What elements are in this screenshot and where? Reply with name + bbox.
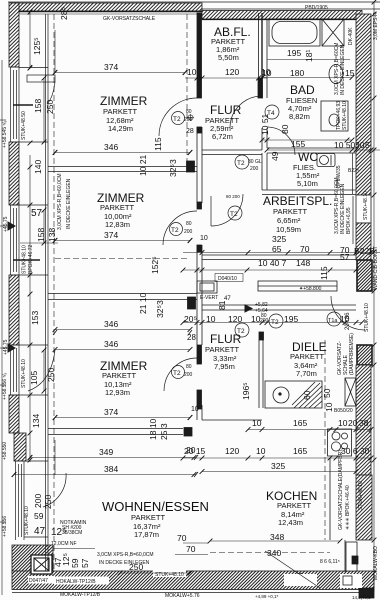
svg-text:6,72m: 6,72m — [212, 132, 233, 141]
svg-text:165: 165 — [293, 418, 307, 428]
svg-text:WC: WC — [298, 150, 318, 164]
svg-text:ZIMMER: ZIMMER — [100, 94, 148, 108]
svg-text:340: 340 — [267, 548, 281, 558]
svg-text:E-VERT: E-VERT — [200, 295, 218, 301]
svg-text:80: 80 — [186, 364, 192, 370]
svg-text:32⁵3: 32⁵3 — [168, 159, 178, 177]
svg-text:WAND-CIB-BOKST: WAND-CIB-BOKST — [373, 246, 379, 290]
svg-text:8,82m: 8,82m — [289, 112, 310, 121]
svg-text:PARKETT: PARKETT — [205, 345, 239, 354]
svg-text:140: 140 — [33, 160, 43, 174]
svg-text:374: 374 — [104, 62, 118, 72]
svg-text:IN DECKE EINLEGEN: IN DECKE EINLEGEN — [99, 560, 150, 566]
svg-text:25 3: 25 3 — [159, 423, 169, 440]
svg-text:10,59m: 10,59m — [276, 225, 301, 234]
svg-text:ARBEITSPL.: ARBEITSPL. — [263, 194, 332, 208]
svg-text:PARKETT: PARKETT — [277, 501, 311, 510]
svg-text:14,29m: 14,29m — [108, 124, 133, 133]
svg-text:346: 346 — [104, 339, 118, 349]
svg-text:+4,89 +0,1⁵: +4,89 +0,1⁵ — [255, 594, 279, 599]
svg-text:8 6 6,11⁵: 8 6 6,11⁵ — [320, 559, 340, 565]
svg-text:325: 325 — [271, 461, 285, 471]
svg-text:200: 200 — [184, 229, 193, 235]
svg-text:BPOK+6,95: BPOK+6,95 — [346, 207, 352, 234]
svg-text:6,65m²: 6,65m² — [277, 216, 301, 225]
svg-text:✦+58.800: ✦+58.800 — [299, 286, 322, 292]
svg-text:250: 250 — [45, 100, 55, 114]
svg-text:153: 153 — [30, 311, 40, 325]
svg-text:10 21: 10 21 — [138, 154, 148, 176]
svg-text:70: 70 — [186, 544, 196, 554]
svg-text:STUK+48.50: STUK+48.50 — [21, 111, 27, 140]
svg-text:3,0CM XPS-R,B=60,0CM: 3,0CM XPS-R,B=60,0CM — [57, 173, 63, 230]
svg-text:MOKALW+5.76: MOKALW+5.76 — [165, 593, 200, 599]
svg-text:47: 47 — [224, 296, 231, 302]
svg-text:50: 50 — [322, 388, 332, 398]
svg-text:59: 59 — [70, 558, 80, 568]
svg-text:70: 70 — [177, 533, 187, 543]
svg-text:PARKETT: PARKETT — [131, 513, 165, 522]
svg-text:T2: T2 — [173, 116, 181, 123]
svg-text:10: 10 — [338, 418, 348, 428]
svg-text:325: 325 — [272, 234, 286, 244]
svg-text:32⁵3: 32⁵3 — [155, 300, 165, 318]
svg-text:IN DECKE EINLEGEN: IN DECKE EINLEGEN — [340, 44, 346, 95]
svg-text:STUK+48.10: STUK+48.10 — [364, 303, 370, 332]
svg-text:B050/20: B050/20 — [334, 408, 353, 414]
svg-text:D047/47: D047/47 — [29, 578, 48, 584]
svg-text:GK-VORSATZSCHALE(DAMPFBR): GK-VORSATZSCHALE(DAMPFBR) — [338, 450, 344, 530]
svg-text:38: 38 — [359, 418, 369, 428]
svg-text:MOKALW-KBO: MOKALW-KBO — [373, 546, 379, 580]
svg-text:30 6 30: 30 6 30 — [341, 446, 370, 456]
svg-text:T2: T2 — [230, 211, 238, 218]
svg-text:49: 49 — [270, 151, 280, 161]
svg-text:120: 120 — [225, 446, 239, 456]
svg-text:80 GL: 80 GL — [248, 159, 262, 165]
svg-text:++58.545 ⁵⁄₈: ++58.545 ⁵⁄₈ — [2, 120, 8, 148]
svg-text:18 10: 18 10 — [148, 418, 158, 440]
svg-text:20⁵ 86: 20⁵ 86 — [344, 312, 351, 330]
svg-text:148: 148 — [296, 258, 310, 268]
svg-text:10: 10 — [252, 418, 262, 428]
svg-text:30: 30 — [355, 140, 365, 150]
svg-text:195: 195 — [287, 48, 301, 58]
svg-text:10: 10 — [187, 67, 197, 77]
svg-text:++58.556: ++58.556 — [2, 516, 8, 537]
svg-text:21 10: 21 10 — [138, 292, 148, 314]
svg-text:125⁵: 125⁵ — [32, 37, 42, 55]
svg-text:(DAMPFBREMSE): (DAMPFBREMSE) — [349, 333, 355, 375]
svg-text:7,70m: 7,70m — [296, 369, 317, 378]
svg-text:155: 155 — [291, 139, 305, 149]
svg-text:PBD/1905: PBD/1905 — [305, 5, 328, 11]
svg-text:200: 200 — [184, 372, 193, 378]
svg-text:DK-40K: DK-40K — [348, 27, 354, 45]
svg-text:FLUR: FLUR — [210, 103, 242, 117]
svg-text:3,0CM XPS-R,B=60,0CM: 3,0CM XPS-R,B=60,0CM — [97, 552, 154, 558]
svg-text:59: 59 — [34, 511, 44, 521]
svg-text:57: 57 — [80, 558, 90, 568]
svg-text:158: 158 — [33, 99, 43, 113]
svg-text:47: 47 — [34, 526, 46, 537]
svg-text:STUK+48.10: STUK+48.10 — [24, 506, 30, 535]
svg-text:10: 10 — [191, 406, 199, 413]
svg-text:T2: T2 — [171, 227, 179, 234]
svg-text:D040/10: D040/10 — [218, 276, 237, 282]
svg-text:349: 349 — [99, 447, 113, 457]
svg-text:✳✳✳ BPOK:+46.40: ✳✳✳ BPOK:+46.40 — [345, 485, 351, 530]
svg-text:PARKETT: PARKETT — [100, 203, 134, 212]
svg-text:18¹: 18¹ — [304, 50, 314, 62]
svg-text:346: 346 — [104, 142, 118, 152]
svg-text:B22⁵: B22⁵ — [348, 168, 359, 174]
svg-text:+58.550: +58.550 — [2, 442, 8, 460]
svg-text:200: 200 — [33, 494, 43, 508]
svg-text:T4: T4 — [267, 110, 275, 117]
svg-text:PARKETT: PARKETT — [103, 107, 137, 116]
svg-text:158: 158 — [36, 228, 46, 242]
svg-text:10 50: 10 50 — [334, 140, 356, 150]
svg-text:PARKETT: PARKETT — [273, 207, 307, 216]
svg-text:STUK+48.10: STUK+48.10 — [342, 101, 348, 130]
svg-text:57: 57 — [340, 252, 350, 262]
svg-text:115: 115 — [153, 137, 163, 151]
svg-text:PARKETT: PARKETT — [102, 371, 136, 380]
svg-text:80 200: 80 200 — [226, 194, 240, 199]
svg-text:10: 10 — [256, 446, 266, 456]
svg-text:80: 80 — [186, 221, 192, 227]
svg-text:20: 20 — [348, 418, 358, 428]
svg-text:152⁵: 152⁵ — [150, 256, 160, 274]
svg-text:200: 200 — [250, 166, 259, 172]
svg-text:T2: T2 — [237, 160, 245, 167]
svg-text:STUK+48.10: STUK+48.10 — [21, 359, 27, 388]
svg-text:115: 115 — [319, 266, 329, 280]
svg-text:374: 374 — [104, 407, 118, 417]
svg-text:IN DECKE EINLEGEN: IN DECKE EINLEGEN — [66, 178, 72, 229]
svg-text:T2: T2 — [237, 328, 245, 335]
svg-text:++58.556 ⁵⁄₈: ++58.556 ⁵⁄₈ — [2, 372, 8, 400]
svg-text:38/38CM: 38/38CM — [62, 530, 82, 536]
svg-text:12,43m: 12,43m — [278, 518, 303, 527]
svg-text:5,10m: 5,10m — [297, 179, 318, 188]
svg-text:384: 384 — [104, 464, 118, 474]
svg-text:374: 374 — [104, 230, 118, 240]
svg-text:12,93m: 12,93m — [105, 388, 130, 397]
svg-text:10: 10 — [324, 402, 334, 412]
svg-text:BAD: BAD — [290, 83, 315, 97]
svg-text:165: 165 — [293, 446, 307, 456]
svg-text:5,50m: 5,50m — [218, 53, 239, 62]
svg-text:250: 250 — [43, 495, 53, 509]
svg-text:80: 80 — [280, 124, 290, 134]
svg-text:346: 346 — [104, 319, 118, 329]
svg-text:17,87m: 17,87m — [134, 530, 159, 539]
svg-text:134: 134 — [31, 414, 41, 428]
svg-text:T2: T2 — [173, 370, 181, 377]
svg-text:57: 57 — [31, 208, 43, 219]
svg-text:STUK+48.10: STUK+48.10 — [358, 481, 364, 510]
svg-text:HOKALW-TP12/B: HOKALW-TP12/B — [56, 579, 96, 585]
svg-text:196⁵: 196⁵ — [241, 382, 251, 400]
svg-text:12,0CM NF: 12,0CM NF — [51, 541, 77, 547]
svg-text:STUK+48.10: STUK+48.10 — [363, 191, 369, 220]
svg-text:GK-VORSATZSCHALE: GK-VORSATZSCHALE — [103, 16, 156, 22]
svg-text:WOHNEN/ESSEN: WOHNEN/ESSEN — [102, 499, 209, 514]
svg-text:10 40 7: 10 40 7 — [258, 258, 287, 268]
svg-text:105: 105 — [29, 371, 39, 385]
svg-text:60: 60 — [302, 390, 312, 400]
svg-text:5: 5 — [365, 140, 370, 150]
svg-text:7,95m: 7,95m — [214, 362, 235, 371]
svg-text:MOKALW-TP12/B: MOKALW-TP12/B — [60, 592, 101, 598]
svg-text:10: 10 — [200, 235, 208, 242]
svg-text:PARKETT: PARKETT — [290, 352, 324, 361]
svg-text:120: 120 — [225, 67, 239, 77]
svg-text:T1a: T1a — [328, 318, 338, 324]
svg-text:348: 348 — [270, 532, 284, 542]
svg-text:3,0M EPS-R: 3,0M EPS-R — [373, 12, 379, 40]
svg-text:20: 20 — [186, 445, 196, 455]
svg-text:28⁵: 28⁵ — [59, 7, 69, 20]
svg-text:180: 180 — [290, 68, 304, 78]
svg-text:250: 250 — [46, 368, 56, 382]
svg-text:14,0|40,5: 14,0|40,5 — [352, 595, 371, 600]
svg-text:12,83m: 12,83m — [105, 220, 130, 229]
